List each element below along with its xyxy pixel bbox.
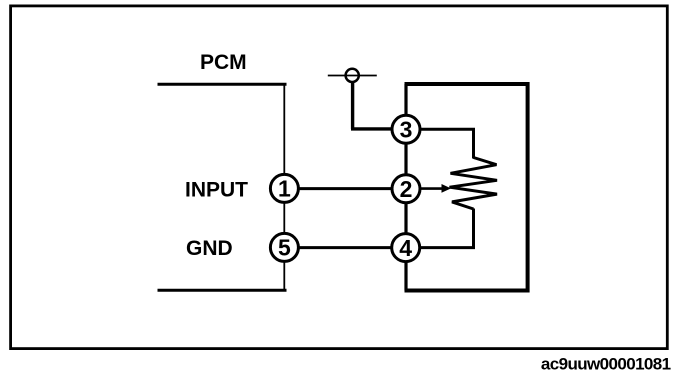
svg-text:3: 3	[400, 117, 413, 143]
svg-text:PCM: PCM	[200, 51, 247, 74]
svg-text:5: 5	[278, 235, 291, 261]
terminal 4	[392, 234, 420, 262]
wire terminal 5 to terminal 4	[284, 246, 406, 249]
svg-text:1: 1	[278, 176, 291, 202]
wire terminal 4 to resistor bottom	[406, 209, 474, 248]
svg-text:ac9uuw00001081: ac9uuw00001081	[541, 355, 671, 374]
terminal 1	[270, 174, 298, 202]
resistor (potentiometer track)	[450, 158, 498, 210]
wiper arrow from terminal 2	[420, 184, 451, 193]
terminal 3	[392, 115, 420, 143]
terminal 2	[392, 175, 420, 203]
sensor outline	[405, 84, 528, 291]
terminal 5	[270, 233, 298, 261]
PCM block outline	[158, 84, 287, 290]
wire terminal 3 to resistor top	[406, 129, 474, 158]
svg-text:GND: GND	[186, 237, 233, 260]
wire terminal 1 to terminal 2	[284, 187, 406, 190]
svg-text:2: 2	[400, 176, 413, 202]
svg-text:INPUT: INPUT	[185, 179, 248, 202]
inline connector symbol	[346, 69, 359, 82]
svg-text:4: 4	[399, 235, 412, 261]
wire connector to terminal 3	[351, 83, 406, 130]
wire power feed	[328, 75, 377, 77]
